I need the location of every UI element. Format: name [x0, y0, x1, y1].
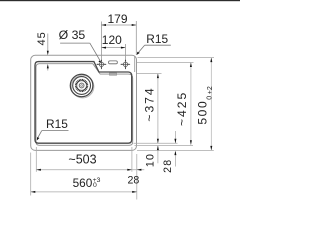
- drain tick ring: [75, 79, 88, 92]
- drain second circle: [73, 77, 91, 95]
- svg-text:0: 0: [206, 96, 213, 100]
- dim 120: [101, 44, 125, 60]
- svg-text:179: 179: [107, 12, 127, 26]
- svg-text:R15: R15: [46, 117, 68, 131]
- dim ~374: [157, 74, 159, 144]
- bowl main outline: [35, 62, 132, 144]
- svg-text:560: 560: [73, 176, 93, 190]
- page top border line: [0, 0, 240, 1]
- svg-text:500: 500: [196, 100, 210, 125]
- dim 179: [101, 21, 136, 60]
- svg-text:10: 10: [145, 153, 157, 167]
- bowl shadow copy (offset): [36, 64, 133, 146]
- slot knockout: [109, 61, 118, 64]
- dim 10 arrows: [157, 146, 159, 163]
- drain inner circle: [79, 83, 84, 88]
- tap hole cross 1: [97, 60, 107, 70]
- dim ~503: [36, 169, 144, 171]
- sink outer rim: [31, 55, 137, 150]
- dim 500: [210, 58, 212, 151]
- svg-text:~425: ~425: [175, 91, 189, 126]
- drain outer circle: [71, 75, 94, 98]
- overflow mark: [109, 73, 116, 75]
- dim 28 vertical: [174, 131, 176, 143]
- svg-text:~503: ~503: [68, 152, 96, 166]
- tap hole cross 2: [121, 60, 130, 70]
- svg-text:Ø 35: Ø 35: [59, 28, 86, 42]
- svg-text:R15: R15: [146, 32, 168, 46]
- svg-text:120: 120: [102, 33, 122, 47]
- tap deck right edge: [134, 56, 136, 72]
- right ext lines: [134, 58, 215, 151]
- svg-text:28: 28: [128, 175, 140, 187]
- bottom ext lines: [31, 147, 137, 200]
- svg-text:~374: ~374: [143, 86, 157, 121]
- svg-text:+2: +2: [207, 86, 214, 94]
- drain center screw: [81, 85, 83, 87]
- dim ~425: [190, 63, 192, 145]
- svg-text:0: 0: [93, 182, 97, 189]
- svg-text:28: 28: [162, 159, 174, 173]
- dim 560: [31, 191, 137, 193]
- svg-text:45: 45: [36, 31, 48, 45]
